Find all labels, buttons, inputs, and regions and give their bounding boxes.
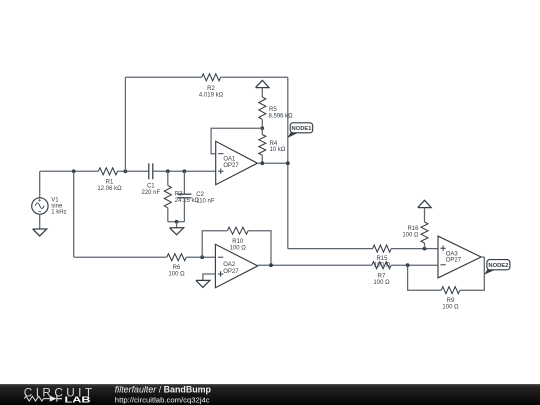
wire R7 to OA3 inverting <box>391 264 438 266</box>
svg-text:sine: sine <box>51 203 63 209</box>
wire OA3 output <box>481 256 484 258</box>
svg-text:OP27: OP27 <box>223 163 239 169</box>
svg-text:4.019 kΩ: 4.019 kΩ <box>199 93 224 99</box>
resistor R4 <box>259 128 286 163</box>
ground at OA2 input <box>196 280 210 287</box>
svg-text:OP27: OP27 <box>446 258 462 264</box>
node flag NODE1 <box>287 123 312 138</box>
resistor R5 <box>259 97 293 120</box>
svg-text:100 Ω: 100 Ω <box>168 271 185 277</box>
svg-text:220 nF: 220 nF <box>141 190 160 196</box>
node junction V1 branch <box>72 169 76 173</box>
svg-text:R6: R6 <box>173 265 181 271</box>
wire branch down-left <box>73 171 75 257</box>
svg-text:R7: R7 <box>378 274 386 280</box>
wire R3/C2 bottoms <box>168 221 185 223</box>
svg-text:110 nF: 110 nF <box>196 198 215 204</box>
node junction OA2 output <box>269 263 273 267</box>
resistor R1 <box>97 168 122 192</box>
svg-text:OA3: OA3 <box>446 251 459 257</box>
svg-text:100 Ω: 100 Ω <box>230 246 247 252</box>
svg-text:100 Ω: 100 Ω <box>402 233 419 239</box>
svg-text:100 Ω: 100 Ω <box>442 305 459 311</box>
node junction R2 riser <box>124 169 128 173</box>
node junction R9 tap <box>406 263 410 267</box>
wire top left <box>125 76 201 78</box>
node junction R16 bottom <box>423 247 427 251</box>
wire V1 top lead <box>39 171 41 197</box>
svg-text:C2: C2 <box>196 192 204 198</box>
svg-text:NODE1: NODE1 <box>292 126 313 132</box>
op-amp OA3 <box>438 236 481 278</box>
svg-text:C1: C1 <box>147 184 155 190</box>
node junction C2 tap <box>183 169 187 173</box>
svg-text:OA2: OA2 <box>223 262 236 268</box>
svg-text:R5: R5 <box>269 107 277 113</box>
svg-text:LAB: LAB <box>65 394 91 404</box>
resistor R15 <box>373 245 392 268</box>
svg-text:NODE2: NODE2 <box>488 263 508 269</box>
wire OA1 output <box>257 162 287 164</box>
resistor R7 <box>372 262 391 286</box>
wire OA2 output to R7 <box>258 264 372 266</box>
wire V1 bottom lead <box>39 214 41 229</box>
resistor R9 <box>441 287 460 311</box>
wire V1 to R1 <box>40 170 99 172</box>
svg-text:R1: R1 <box>106 179 114 185</box>
wire R9 loop left <box>408 265 442 290</box>
capacitor C1 <box>141 163 160 196</box>
node flag NODE2 <box>484 260 510 275</box>
resistor R3 <box>164 171 199 222</box>
power flag above R5 <box>256 80 269 97</box>
svg-text:OA1: OA1 <box>223 157 236 163</box>
wire OA2 noninverting to ground <box>203 274 216 280</box>
svg-text:R2: R2 <box>207 86 215 92</box>
svg-text:10 kΩ: 10 kΩ <box>270 147 286 153</box>
wire right vertical NODE1 net <box>287 77 289 248</box>
node junction R5/R4/feedback <box>260 126 264 130</box>
resistor R6 <box>167 254 187 278</box>
svg-text:R4: R4 <box>270 141 278 147</box>
wire R9 loop right <box>460 257 485 290</box>
resistor R10 <box>227 227 248 251</box>
node junction mid ground <box>175 220 179 224</box>
svg-text:100 Ω: 100 Ω <box>374 263 391 269</box>
logo resistor-diode glyph <box>24 396 62 402</box>
svg-text:R9: R9 <box>447 298 455 304</box>
power flag above R16 <box>418 200 431 222</box>
wire feedback to OA1 inverting <box>211 128 262 153</box>
node junction R10 tap <box>200 255 204 259</box>
svg-text:http://circuitlab.com/cq32j4c: http://circuitlab.com/cq32j4c <box>115 395 210 404</box>
svg-text:OP27: OP27 <box>223 269 239 275</box>
op-amp OA2 <box>215 244 257 287</box>
wire ground stem <box>176 222 178 228</box>
wire C1 to OA1 noninverting input <box>153 170 216 172</box>
voltage source V1 <box>32 197 67 215</box>
svg-text:12.06 kΩ: 12.06 kΩ <box>97 186 122 192</box>
ground under R3 C2 <box>170 228 184 235</box>
node junction R3 tap <box>166 169 170 173</box>
wire top right <box>221 76 288 78</box>
node junction R4 bottom <box>260 161 264 165</box>
wire R15 to OA3 noninverting <box>391 248 438 250</box>
op-amp OA1 <box>216 141 258 184</box>
footer bar <box>0 384 540 405</box>
node junction output on vertical <box>286 161 290 165</box>
svg-text:R15: R15 <box>376 256 388 262</box>
ground under V1 <box>33 229 47 236</box>
resistor R2 <box>199 74 224 99</box>
resistor R16 <box>402 222 428 249</box>
svg-text:R16: R16 <box>407 226 419 232</box>
wire R10 loop <box>202 231 271 266</box>
wire R1 to C1 <box>118 170 149 172</box>
wire R6 to OA2 inverting input <box>186 256 215 258</box>
wire R5 to node <box>261 119 263 128</box>
wire to R6 <box>74 256 167 258</box>
wire R2 riser <box>124 77 126 171</box>
capacitor C2 <box>177 171 214 222</box>
svg-text:R10: R10 <box>232 239 244 245</box>
wire to R15 <box>288 248 373 250</box>
svg-text:filterfaulter / BandBump: filterfaulter / BandBump <box>115 385 212 395</box>
svg-text:100 Ω: 100 Ω <box>373 280 390 286</box>
svg-text:1 kHz: 1 kHz <box>51 210 66 216</box>
svg-text:8.596 kΩ: 8.596 kΩ <box>269 114 294 120</box>
